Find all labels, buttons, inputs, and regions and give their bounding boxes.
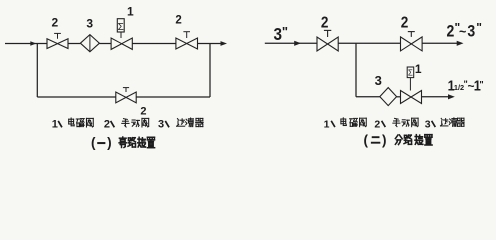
label 2 inch to 3 inch [447,21,482,41]
svg-text:2: 2 [447,23,455,41]
label 2 above right second valve [401,15,409,32]
svg-text:1: 1 [127,5,134,19]
wire inlet (left diagram) [5,43,47,45]
svg-text:Σ: Σ [118,22,124,33]
label 2 above second manual valve [175,14,181,26]
wire outlet bottom (right diagram) [422,96,449,98]
svg-text:1: 1 [324,118,330,130]
svg-text:): ) [382,132,387,147]
label 2 above first manual valve [52,15,59,29]
flow arrow outlet top right [457,41,464,46]
solenoid valve 1 (left diagram) [111,19,132,50]
caption: (2) branch arrangement [364,132,433,147]
svg-text:3: 3 [467,23,475,41]
label 1 above right solenoid valve [415,62,422,76]
label 3 above filter [86,17,93,31]
svg-text:2: 2 [52,15,59,29]
bypass manual valve 2 [116,88,136,103]
wire inlet (right diagram) [265,42,317,44]
manual valve 2 (right, first) [317,30,338,51]
legend left: 1.solenoid valve 2.manual valve 3.filter [52,118,203,131]
label 2 below bypass valve [140,106,146,118]
svg-text:2: 2 [374,118,380,130]
manual valve 2 (left, second) [176,32,198,49]
filter 3 (left diagram diamond) [80,35,99,52]
svg-text:Σ: Σ [408,69,413,78]
flow arrow outlet bottom right [448,94,455,99]
caption: (1) bypass arrangement [91,135,155,150]
label 2 above right first valve [321,15,329,32]
svg-text:3: 3 [425,118,431,130]
flow arrow right inlet [294,41,301,46]
svg-text:2: 2 [104,119,110,131]
svg-text:3: 3 [86,17,93,31]
flow arrow outlet left [221,41,228,46]
wire between right valves [338,42,400,44]
svg-text:2: 2 [321,15,329,32]
manual valve 2 (left, first) [47,33,68,48]
svg-text:": " [476,21,482,35]
wire valve to filter [68,43,80,45]
svg-text:1: 1 [415,62,422,76]
wire outlet (left diagram) [198,43,222,45]
svg-text:2: 2 [140,106,146,118]
manual valve 2 (right, second) [401,32,423,51]
svg-text:2: 2 [175,14,181,26]
junction drop right [209,44,211,98]
svg-text:): ) [107,135,112,150]
svg-text:": " [479,79,483,89]
wire filter to solenoid valve [99,43,111,45]
wire solenoid to second manual valve [132,43,176,45]
filter 3 (right diagram diamond) [380,88,397,106]
svg-text:3: 3 [375,73,382,88]
svg-text:(: ( [364,132,369,147]
label 3 above right filter [375,73,382,88]
branch wire (right diagram) [356,96,380,98]
svg-text:(: ( [91,135,96,150]
junction drop left [36,44,38,98]
svg-text:~: ~ [459,25,466,39]
label 3 inch (right inlet) [273,24,288,44]
svg-text:2: 2 [401,15,409,32]
solenoid valve 1 (right diagram) [401,67,422,104]
label 1-1/2 inch to 1 inch [448,77,484,94]
legend right: 1.solenoid valve 2.manual valve 3.filter [324,118,465,131]
svg-text:3: 3 [273,24,282,44]
bypass wire right segment [136,96,210,98]
junction drop (right diagram) [355,43,357,97]
label 1 above solenoid valve [127,5,134,19]
bypass wire left segment [37,96,116,98]
flow arrow on inlet [30,41,36,46]
svg-text:1: 1 [52,119,58,131]
wire filter to solenoid (right) [397,96,401,98]
svg-text:": " [282,24,288,39]
svg-text:3: 3 [158,119,164,131]
wire outlet top (right diagram) [422,42,457,44]
